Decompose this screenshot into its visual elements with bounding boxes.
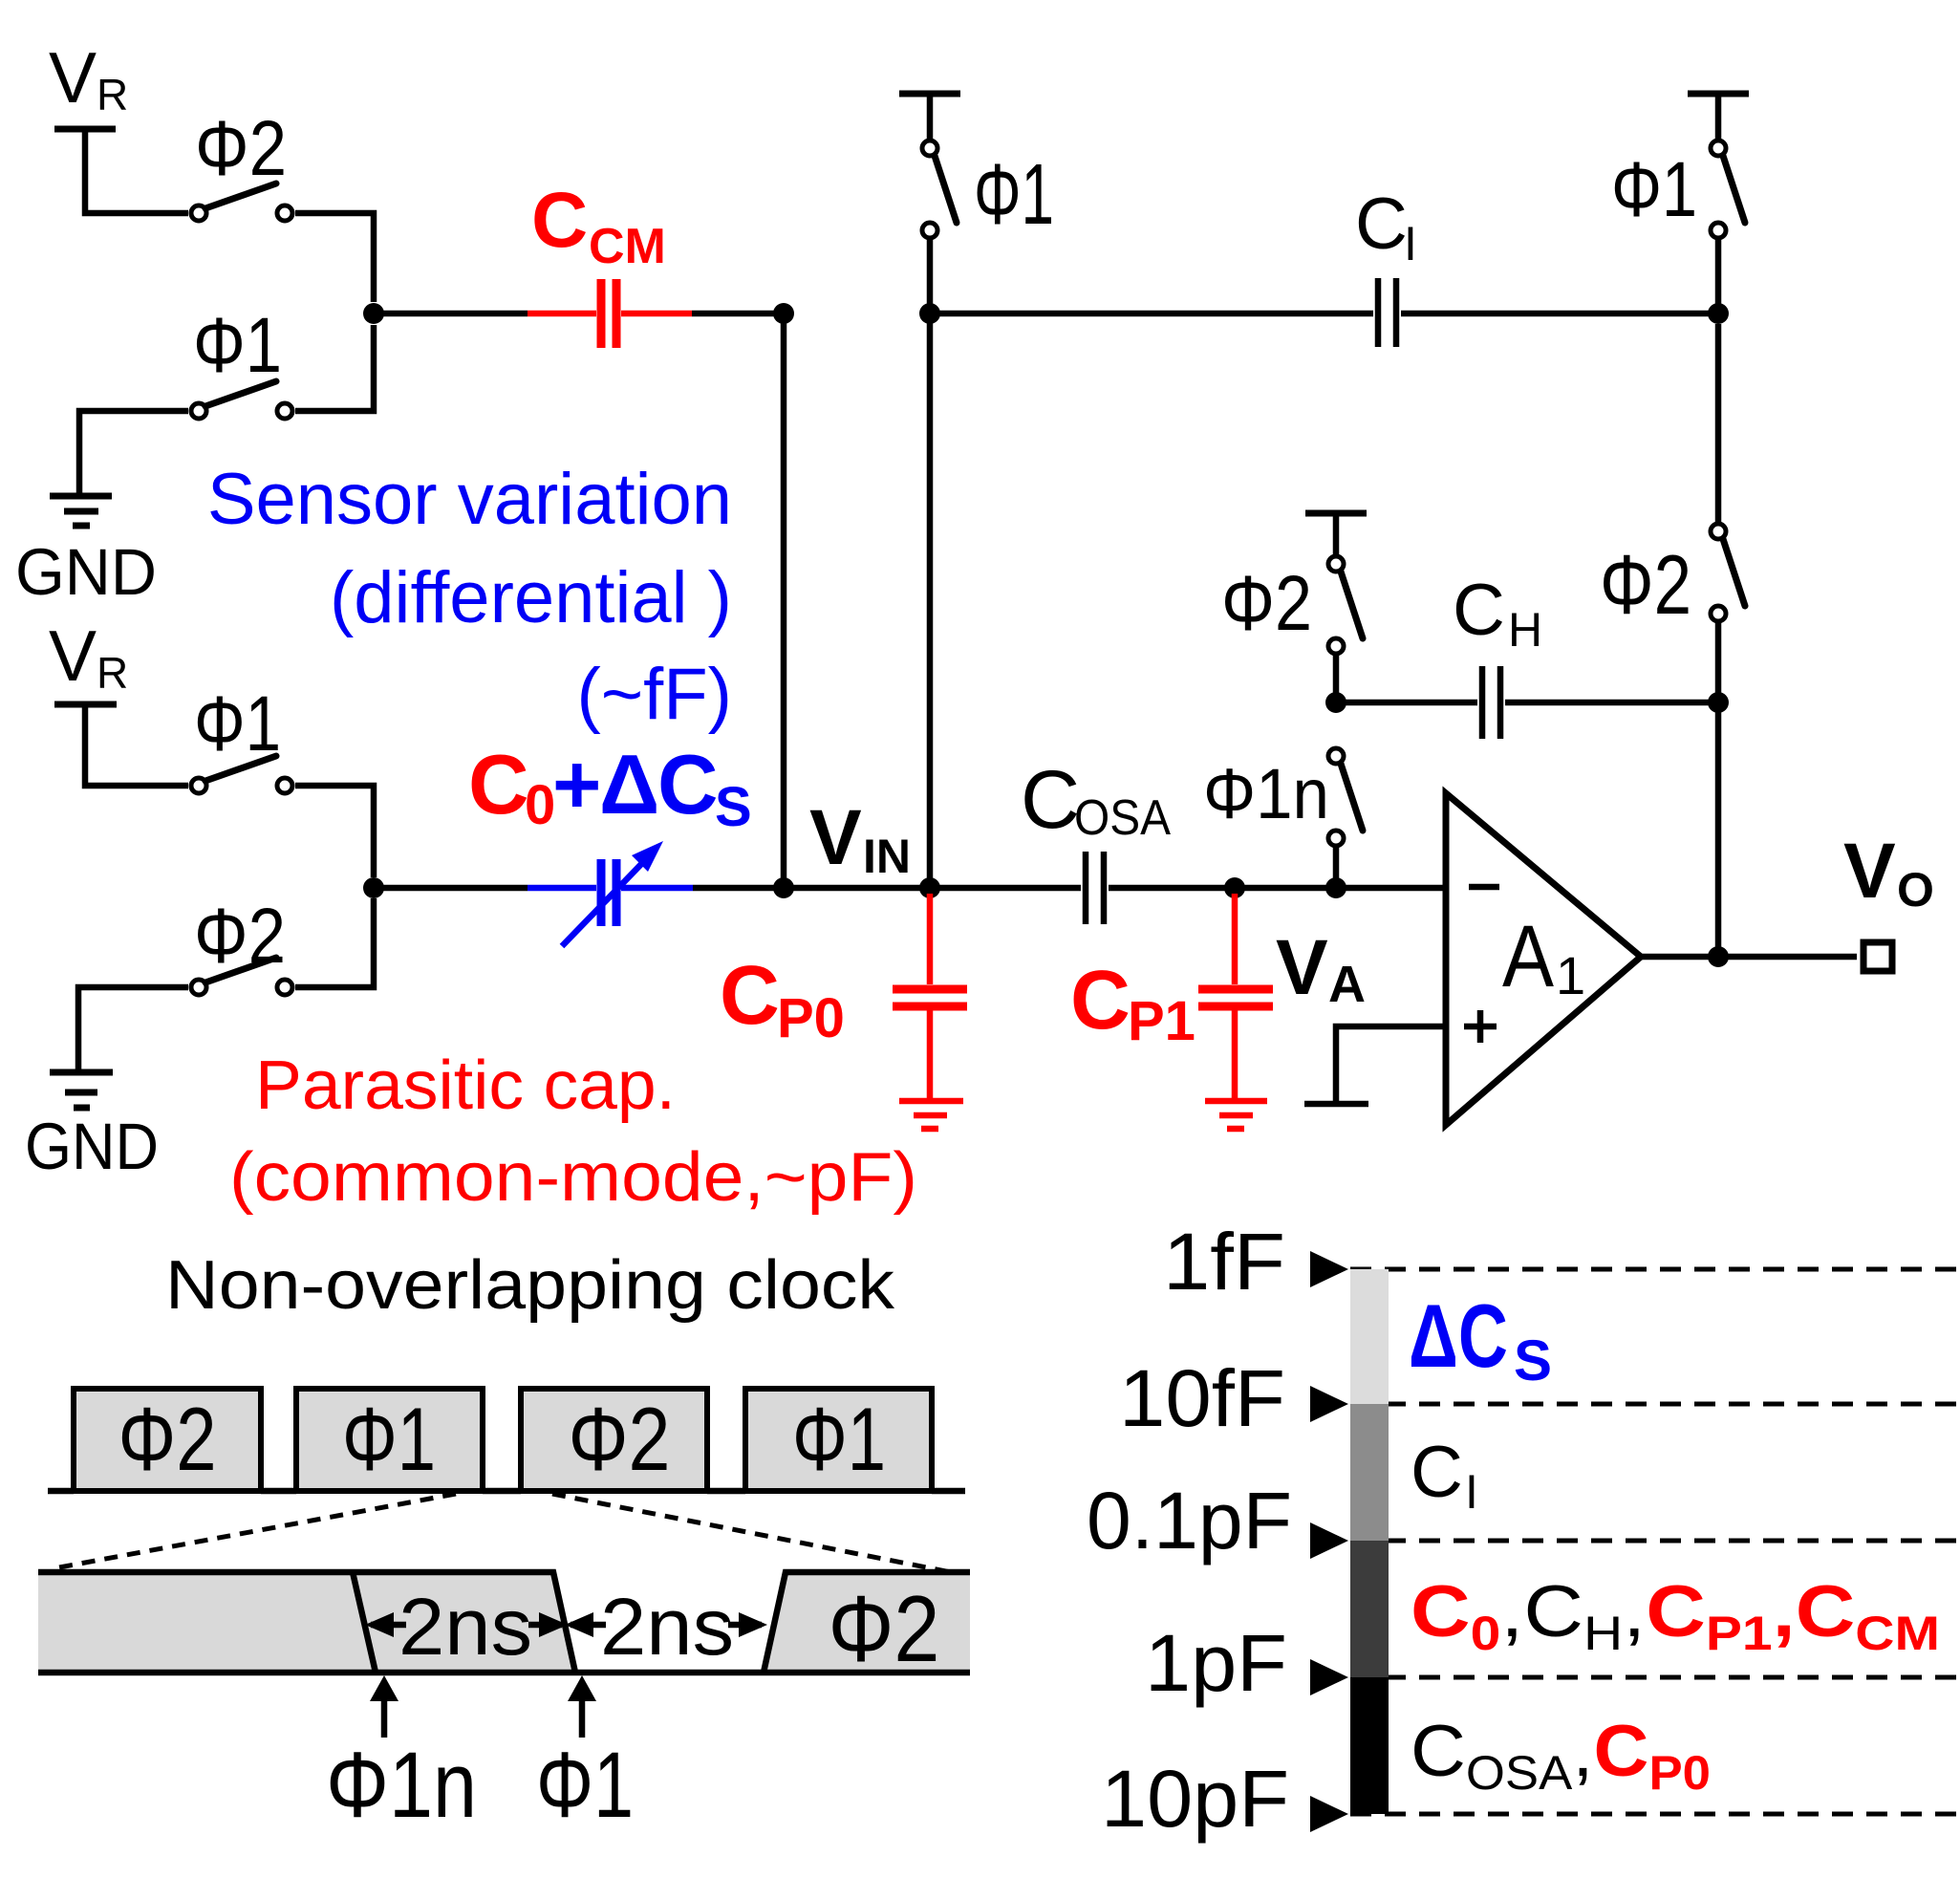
clock pulse phi2 a <box>74 1389 261 1491</box>
svg-text:0.1pF: 0.1pF <box>1087 1476 1292 1565</box>
svg-text:1pF: 1pF <box>1145 1618 1287 1708</box>
svg-text:C: C <box>1021 754 1080 846</box>
svg-text:GND: GND <box>25 1110 159 1183</box>
wire CI row right <box>1401 311 1718 317</box>
cap range dashed line 1pF <box>1350 1675 1960 1680</box>
node F right column top <box>1708 303 1729 324</box>
svg-text:Φ2: Φ2 <box>195 105 287 192</box>
switch S9 lever <box>1341 764 1363 831</box>
node VA <box>1224 877 1245 898</box>
clock waveform baseline <box>48 1488 965 1495</box>
capacitor C0+dCs variable <box>528 885 693 892</box>
svg-text:1fF: 1fF <box>1163 1217 1285 1306</box>
svg-text:I: I <box>1404 217 1417 270</box>
capacitor CP1 <box>1232 894 1238 984</box>
capacitor CI <box>1378 278 1396 347</box>
svg-text:10pF: 10pF <box>1101 1754 1289 1844</box>
svg-text:P0: P0 <box>777 987 845 1049</box>
svg-text:0: 0 <box>525 774 555 836</box>
svg-text:A: A <box>1502 908 1555 1005</box>
svg-text:C: C <box>657 737 719 831</box>
zoomed waveform high band <box>38 1572 575 1673</box>
wire stub <box>927 94 934 140</box>
wire VIN to COSA <box>784 885 1081 892</box>
svg-text:V: V <box>49 615 97 696</box>
ground CP1 red <box>1205 1101 1267 1129</box>
capacitor CCM <box>528 311 692 317</box>
VR1 supply bar <box>54 126 116 133</box>
bar segment COSA group <box>1350 1677 1389 1814</box>
switch S5 phi1 contacts <box>922 140 937 156</box>
svg-text:Φ1n: Φ1n <box>326 1733 477 1837</box>
capacitor CP0 <box>927 894 934 984</box>
svg-text:P1: P1 <box>1128 990 1195 1052</box>
wire right column S7 to CH node <box>1715 621 1722 702</box>
wire CH row right <box>1505 700 1718 706</box>
wire plus input <box>1336 1026 1446 1101</box>
svg-text:10fF: 10fF <box>1119 1353 1285 1443</box>
wire S2 to node A column <box>295 325 374 411</box>
svg-text:2ns: 2ns <box>398 1582 532 1672</box>
svg-text:Φ1: Φ1 <box>974 147 1054 243</box>
ground CP0 red <box>899 1101 963 1129</box>
bar segment CI <box>1350 1404 1389 1541</box>
axis arrow 0.1pF <box>1310 1522 1348 1559</box>
svg-text:+: + <box>552 737 601 831</box>
svg-text:Φ2: Φ2 <box>829 1576 940 1681</box>
svg-text:C: C <box>1453 570 1505 651</box>
terminal VO square <box>1863 942 1892 971</box>
ground GND1 <box>50 496 112 526</box>
dimension arrow 2ns first <box>371 1622 562 1629</box>
switch S7 phi2 contacts <box>1711 524 1726 539</box>
switch S1 lever <box>205 184 276 208</box>
switch S5 lever <box>935 156 957 223</box>
switch S9 phi1n contacts <box>1328 748 1344 764</box>
svg-text:Φ2: Φ2 <box>194 893 286 980</box>
wire VR2 stub <box>85 704 188 786</box>
cap range dashed line 10fF <box>1350 1402 1960 1407</box>
svg-text:(~fF): (~fF) <box>576 654 732 735</box>
svg-text:GND: GND <box>15 535 157 609</box>
wire CCM to node C <box>692 311 784 317</box>
switch S3 phi1 contacts <box>191 778 206 793</box>
svg-text:H: H <box>1508 603 1542 657</box>
wire S4 to node B column <box>295 898 374 987</box>
svg-text:S: S <box>1514 1328 1552 1393</box>
svg-text:Φ1: Φ1 <box>194 680 281 767</box>
wire S8 to CH node <box>1333 654 1340 702</box>
bar segment dCs <box>1350 1269 1389 1404</box>
svg-text:Φ2: Φ2 <box>118 1389 217 1489</box>
svg-text:Non-overlapping clock: Non-overlapping clock <box>165 1247 895 1324</box>
svg-text:V: V <box>49 37 97 118</box>
axis arrow 1pF <box>1310 1659 1348 1695</box>
wire node C down to VIN <box>781 313 787 888</box>
dashed zoom guide right <box>552 1494 956 1573</box>
svg-text:I: I <box>1465 1465 1478 1519</box>
marker arrow phi1 <box>579 1694 586 1738</box>
node G right CH <box>1708 692 1729 713</box>
bar segment C0 group <box>1350 1541 1389 1677</box>
switch S3 lever <box>205 756 276 781</box>
svg-text:2ns: 2ns <box>600 1582 734 1672</box>
svg-text:Φ1: Φ1 <box>536 1733 634 1837</box>
axis arrow 1fF <box>1310 1251 1348 1287</box>
switch S4 phi2 contacts <box>191 980 206 995</box>
svg-text:Sensor variation: Sensor variation <box>207 459 732 540</box>
svg-text:O: O <box>1897 863 1934 917</box>
switch S8 phi2 contacts <box>1328 556 1344 572</box>
svg-text:R: R <box>97 70 128 119</box>
svg-text:Φ2: Φ2 <box>569 1389 671 1489</box>
wire CI row left <box>930 311 1373 317</box>
switch S1 phi2 contacts <box>191 205 206 221</box>
wire node B to CS <box>374 885 528 892</box>
svg-text:CM: CM <box>589 219 666 274</box>
clock pulse phi1 b <box>745 1389 932 1491</box>
axis arrow 10fF <box>1310 1386 1348 1422</box>
dashed zoom guide left <box>59 1494 456 1567</box>
arrow of variable capacitor <box>562 859 646 946</box>
svg-text:Φ1: Φ1 <box>792 1389 886 1489</box>
node C <box>773 303 794 324</box>
wire S1 to node A column <box>295 213 374 302</box>
svg-text:Φ2: Φ2 <box>1221 560 1312 647</box>
op-amp minus input mark <box>1469 884 1499 891</box>
clock pulse phi2 b <box>521 1389 707 1491</box>
VR2 supply bar <box>54 702 117 708</box>
switch S7 lever <box>1723 539 1745 606</box>
wire CH row left <box>1336 700 1477 706</box>
wire output <box>1641 954 1857 961</box>
wire GND1 to S2 <box>79 411 188 493</box>
svg-text:S: S <box>715 776 752 838</box>
switch S2 lever <box>205 381 276 406</box>
ground bar plus input <box>1304 1101 1368 1108</box>
node D (CP0 / phi1 column) <box>919 877 940 898</box>
wire VR1 stub <box>85 129 188 213</box>
cap range dashed line 0.1pF <box>1350 1539 1960 1544</box>
wire CS to VIN node <box>693 885 784 892</box>
capacitor COSA <box>1086 852 1104 924</box>
svg-text:Φ1: Φ1 <box>342 1389 436 1489</box>
node J output <box>1708 946 1729 967</box>
wire stub <box>1333 513 1340 556</box>
node I phi1n on VA row <box>1325 877 1346 898</box>
svg-text:C: C <box>531 177 588 264</box>
switch S2 phi1 contacts <box>191 403 206 419</box>
wire right column between CI node and S7 <box>1715 238 1722 523</box>
cap range dashed line 1fF <box>1350 1267 1960 1272</box>
svg-text:1: 1 <box>1556 945 1585 1005</box>
svg-text:(common-mode,~pF): (common-mode,~pF) <box>229 1139 917 1216</box>
switch S6 lever <box>1723 156 1745 223</box>
wire VA to opamp <box>1235 885 1446 892</box>
svg-text:V: V <box>1843 828 1896 915</box>
svg-text:IN: IN <box>863 830 911 883</box>
svg-text:Φ1n: Φ1n <box>1203 754 1329 833</box>
svg-text:V: V <box>809 794 862 881</box>
node VIN <box>773 877 794 898</box>
node B <box>363 877 384 898</box>
zoomed waveform phi1n fall <box>353 1572 376 1673</box>
wire S3 to node B column <box>295 786 374 877</box>
clock source bar phi1 right <box>1688 91 1749 97</box>
svg-text:V: V <box>1276 924 1328 1011</box>
wire node A to CCM <box>374 311 528 317</box>
svg-text:Parasitic cap.: Parasitic cap. <box>255 1047 676 1124</box>
wire COSA to VA node <box>1109 885 1235 892</box>
wire GND2 to S4 <box>78 987 188 1069</box>
svg-text:R: R <box>97 648 128 698</box>
op-amp plus input mark <box>1464 1010 1497 1043</box>
zoomed waveform phi2 band <box>764 1572 970 1673</box>
wire S9 to VA row <box>1333 846 1340 888</box>
op-amp A1 <box>1446 793 1641 1125</box>
svg-text:C: C <box>1411 1432 1463 1513</box>
marker arrow phi1n <box>381 1694 388 1738</box>
clock source bar phi1 left <box>899 91 960 97</box>
dimension arrow 2ns second <box>571 1622 762 1629</box>
wire column x973 switch to VIN row <box>927 238 934 888</box>
ground GND2 <box>50 1072 113 1108</box>
svg-text:Φ2: Φ2 <box>1600 537 1691 632</box>
node E on CI row <box>919 303 940 324</box>
zoomed waveform outline <box>38 1572 970 1673</box>
svg-text:(differential ): (differential ) <box>330 557 732 638</box>
capacitor CH <box>1482 666 1500 739</box>
wire right column down to output <box>1715 702 1722 957</box>
axis arrow 10pF <box>1310 1796 1348 1832</box>
clock pulse phi1 a <box>296 1389 483 1491</box>
svg-text:C: C <box>720 949 780 1042</box>
svg-text:A: A <box>1328 956 1366 1013</box>
svg-text:Δ: Δ <box>599 737 659 831</box>
cap range dashed line 10pF <box>1350 1812 1960 1817</box>
switch S8 lever <box>1341 572 1363 638</box>
node H left CH <box>1325 692 1346 713</box>
svg-text:Φ1: Φ1 <box>1611 146 1697 233</box>
switch S4 lever <box>205 958 276 982</box>
svg-text:ΔC: ΔC <box>1409 1285 1508 1386</box>
clock source bar phi2 mid <box>1305 510 1367 517</box>
svg-text:C: C <box>1070 954 1131 1047</box>
switch S6 phi1 contacts <box>1711 140 1726 156</box>
svg-text:C: C <box>468 737 529 831</box>
svg-text:Φ1: Φ1 <box>193 302 282 389</box>
svg-text:C: C <box>1355 184 1408 265</box>
wire stub <box>1715 94 1722 140</box>
svg-text:OSA: OSA <box>1074 790 1171 846</box>
node A <box>363 303 384 324</box>
